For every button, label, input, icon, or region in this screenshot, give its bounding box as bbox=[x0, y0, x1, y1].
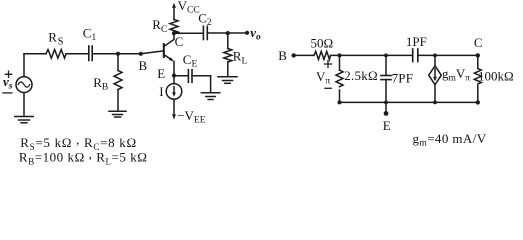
svg-text:B: B bbox=[278, 48, 287, 63]
svg-text:C: C bbox=[175, 34, 184, 49]
svg-text:RS: RS bbox=[48, 30, 63, 48]
svg-text:C1: C1 bbox=[83, 26, 97, 44]
svg-text:−VEE: −VEE bbox=[177, 108, 206, 126]
svg-text:RL: RL bbox=[233, 49, 248, 67]
svg-text:RC: RC bbox=[152, 17, 167, 35]
svg-text:C2: C2 bbox=[198, 10, 212, 28]
svg-text:gm=40 mA/V: gm=40 mA/V bbox=[413, 131, 487, 149]
svg-text:2.5kΩ: 2.5kΩ bbox=[344, 68, 378, 83]
svg-text:B: B bbox=[139, 58, 148, 73]
svg-text:C: C bbox=[474, 35, 483, 50]
svg-text:1PF: 1PF bbox=[406, 34, 427, 49]
svg-text:E: E bbox=[157, 66, 165, 81]
svg-text:VCC: VCC bbox=[178, 0, 200, 16]
svg-text:7PF: 7PF bbox=[392, 70, 414, 85]
svg-text:RB=100 kΩ , RL=5 kΩ: RB=100 kΩ , RL=5 kΩ bbox=[19, 146, 148, 166]
svg-text:100kΩ: 100kΩ bbox=[478, 69, 514, 84]
svg-text:Vπ: Vπ bbox=[316, 69, 330, 87]
svg-text:E: E bbox=[383, 118, 391, 133]
svg-text:CE: CE bbox=[183, 52, 198, 70]
svg-text:vs: vs bbox=[3, 74, 13, 92]
svg-text:RB: RB bbox=[93, 75, 108, 93]
svg-text:50Ω: 50Ω bbox=[311, 35, 334, 50]
svg-text:gmVπ: gmVπ bbox=[442, 66, 470, 84]
svg-text:I: I bbox=[159, 84, 163, 99]
svg-text:vo: vo bbox=[250, 25, 261, 43]
